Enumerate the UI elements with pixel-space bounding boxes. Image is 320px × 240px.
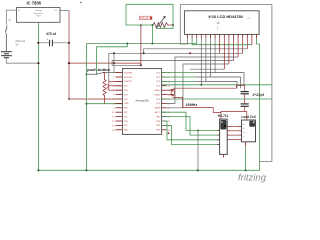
svg-text:PD3: PD3: [124, 90, 128, 92]
svg-text:XTAL1: XTAL1: [154, 89, 160, 92]
svg-text:6: 6: [113, 95, 115, 97]
load cell bottom pin to gnd: [245, 142, 247, 146]
svg-text:PB3: PB3: [156, 125, 160, 127]
push-button SW2: [86, 72, 113, 74]
wire battery to regulator: [6, 10, 16, 25]
HX711 bottom stub: [222, 154, 224, 157]
red wires button node to IC: [109, 81, 123, 90]
IC pin labels right: [154, 72, 160, 131]
capacitor C1 470uf plates: [50, 40, 53, 46]
svg-text:PC5: PC5: [156, 72, 160, 74]
svg-text:PB7: PB7: [124, 112, 128, 114]
potentiometer R2 zigzag: [153, 23, 169, 28]
svg-text:VCC: VCC: [124, 99, 129, 101]
battery 9V: [1, 52, 12, 58]
IC pin numbers: [112, 73, 171, 132]
svg-text:S1: S1: [8, 19, 12, 22]
svg-text:PD4: PD4: [124, 94, 128, 96]
svg-text:10: 10: [112, 112, 115, 114]
maroon wire cap2 to boxes bracket: [221, 106, 247, 120]
svg-text:PB2: PB2: [156, 130, 160, 132]
red wire button node vertical: [108, 81, 110, 90]
svg-text:HX-711: HX-711: [218, 114, 229, 118]
svg-text:PB4: PB4: [156, 121, 160, 123]
svg-text:2: 2: [113, 77, 115, 79]
tiny mark: [80, 2, 81, 3]
svg-text:PB6: PB6: [124, 108, 128, 110]
svg-text:Regulator: Regulator: [34, 12, 44, 15]
svg-text:PC0: PC0: [156, 103, 160, 105]
wire battery minus to gnd rail: [6, 58, 38, 63]
svg-text:9V: 9V: [16, 42, 19, 46]
LCD1 box: [184, 11, 259, 35]
svg-text:Voltage: Voltage: [35, 9, 43, 12]
IC pin labels left: [124, 72, 133, 131]
load cell inner text: [243, 124, 246, 138]
svg-text:PC1: PC1: [156, 99, 160, 101]
svg-text:Load Cell: Load Cell: [241, 115, 255, 119]
svg-text:PD7: PD7: [124, 125, 128, 127]
microcontroller U2 Atmega328 box: [122, 69, 161, 135]
green wire LCD pin3: [152, 38, 196, 43]
HX711 right wires to load cell: [227, 127, 241, 140]
svg-text:15: 15: [168, 130, 171, 132]
svg-text:470 uf: 470 uf: [46, 32, 57, 36]
svg-text:9: 9: [113, 108, 115, 110]
svg-text:PB5: PB5: [156, 116, 160, 118]
+5V rail red from regulator: [60, 10, 69, 12]
maroon wire between caps: [244, 94, 246, 104]
pot label box: [139, 16, 152, 19]
junction dots power: [37, 42, 115, 64]
svg-text:AREF: AREF: [155, 107, 161, 110]
maroon XTAL1 route to caps: [173, 85, 245, 91]
svg-text:13: 13: [112, 125, 115, 127]
grey wire to gnd rail x198: [197, 130, 199, 170]
svg-text:OUT: OUT: [54, 10, 59, 12]
green wires IC right to LCD p4 p5 p6: [162, 38, 272, 99]
svg-text:+: +: [47, 37, 49, 41]
grey wire S2 vertical x114: [113, 53, 115, 72]
svg-text:14: 14: [112, 130, 115, 132]
capacitor C1 470uf wire: [38, 42, 69, 44]
svg-text:fritzing: fritzing: [238, 173, 267, 184]
svg-text:17: 17: [168, 121, 171, 123]
HX-711 box: [220, 119, 228, 154]
potentiometer wiper arrow: [156, 17, 164, 28]
svg-text:XTAL2: XTAL2: [154, 93, 160, 96]
wire extensions to caps zone: [206, 73, 244, 89]
svg-text:PC3: PC3: [156, 81, 160, 83]
grey staircase S6 LCD p10: [167, 64, 229, 108]
svg-text:PD5: PD5: [124, 116, 128, 118]
grey staircase S4 LCD p11: [112, 61, 233, 66]
svg-text:11: 11: [112, 117, 115, 119]
svg-text:PD0/RXD: PD0/RXD: [124, 77, 133, 79]
green V0 wire pot to left rail: [86, 44, 152, 171]
grey staircase S5 LCD p12: [167, 57, 239, 103]
svg-text:PC2: PC2: [156, 86, 160, 88]
svg-text:100 µA: 100 µA: [140, 16, 149, 20]
switch S1: [6, 26, 8, 51]
svg-text:PD6: PD6: [124, 121, 128, 123]
capacitor C2 22pf: [241, 92, 249, 94]
green wire pot bottom: [151, 25, 153, 44]
HX-711 icon: [220, 120, 226, 130]
grey staircase S3 LCD p14: [144, 49, 248, 54]
svg-text:IC 7805: IC 7805: [26, 0, 41, 5]
svg-text:PD2: PD2: [124, 86, 128, 88]
capacitor C3 22pf: [241, 104, 249, 106]
grey staircase S1 LCD p13: [109, 52, 243, 54]
maroon pot right lead: [169, 24, 173, 26]
resistor R1 vertical: [103, 73, 106, 104]
LCD pin stubs: [188, 34, 257, 38]
svg-text:PC6/RES: PC6/RES: [124, 72, 133, 74]
svg-text:PC4: PC4: [156, 77, 160, 79]
svg-text:16MHz: 16MHz: [186, 103, 198, 107]
green wire button to IC pin1: [114, 72, 123, 74]
green wire button left up: [97, 44, 128, 75]
maroon XTAL2 route: [173, 97, 221, 112]
green junction dots: [37, 43, 246, 172]
svg-text:7805: 7805: [36, 16, 42, 18]
svg-text:PD1/TXD: PD1/TXD: [124, 81, 133, 83]
svg-text:4*16 LCD HD44780: 4*16 LCD HD44780: [208, 14, 243, 19]
load cell box: [242, 120, 256, 142]
red vertical from pot label: [140, 25, 142, 65]
green wire gnd to IC pin8: [86, 103, 122, 105]
svg-text:PB0: PB0: [124, 130, 128, 132]
svg-text:2*22pf: 2*22pf: [253, 93, 265, 97]
voltage regulator U1 box: [17, 8, 61, 23]
svg-text:12: 12: [112, 121, 115, 123]
svg-text:AVCC: AVCC: [155, 111, 161, 114]
gnd rail green: [38, 22, 259, 170]
load cell icon: [249, 121, 255, 127]
green pot loop top rail: [126, 4, 173, 28]
svg-text:GND: GND: [124, 103, 129, 105]
svg-text:25: 25: [168, 86, 171, 88]
HX711 pin stubs: [217, 127, 241, 145]
grey VSS loop around right: [180, 5, 272, 162]
IC right pin stubs: [162, 73, 167, 130]
crystal Y1 16MHz: [167, 89, 176, 95]
svg-text:push-button: push-button: [87, 67, 110, 72]
svg-text:Atmega328: Atmega328: [135, 99, 149, 103]
IC left pin stubs: [115, 73, 122, 130]
green wires IC to HX711: [162, 112, 220, 144]
